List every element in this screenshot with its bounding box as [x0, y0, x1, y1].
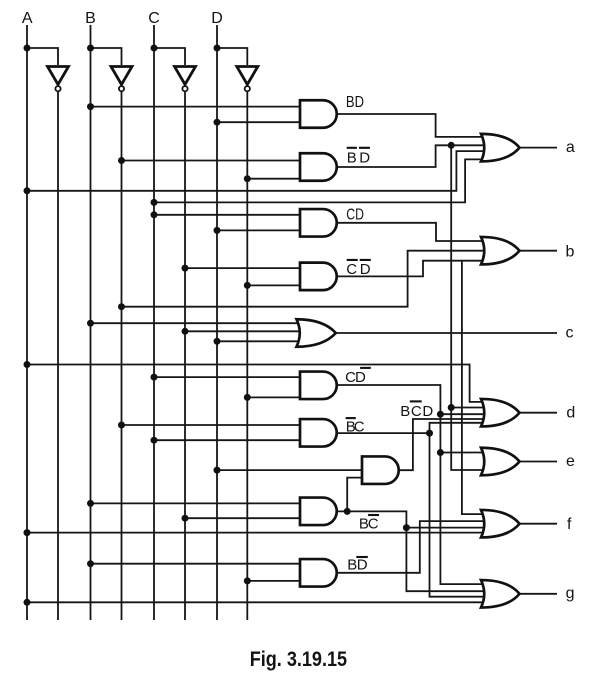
wire bus C: [153, 25, 155, 620]
wire CD-bar output riser to OR g: [336, 385, 490, 584]
wire A to OR a: [27, 151, 490, 191]
OR gate e: [481, 448, 520, 476]
svg-text:D: D: [211, 10, 223, 27]
svg-text:C: C: [368, 515, 379, 532]
wire OR d output: [520, 412, 557, 414]
junction C to B-bar.C: [151, 437, 158, 444]
junction D to BD: [214, 119, 221, 126]
wire OR b output: [520, 250, 557, 252]
svg-text:C: C: [148, 10, 160, 27]
wire D-bar to AND CD-bar input: [247, 396, 301, 398]
label C-bar.D-bar: [346, 260, 371, 278]
wire OR a output: [520, 147, 557, 149]
wire inverter branch C: [154, 48, 185, 65]
junction D-bar to C-bar.D-bar: [244, 282, 251, 289]
wire B-bar.D-bar riser to OR e: [451, 145, 490, 470]
wire C to AND CD-bar input: [154, 376, 301, 378]
wire C to AND CD input: [154, 214, 301, 216]
wire A to OR g: [27, 601, 490, 603]
svg-text:C: C: [354, 419, 365, 436]
svg-text:C: C: [346, 261, 357, 278]
svg-text:BD: BD: [346, 94, 364, 111]
svg-text:A: A: [22, 10, 33, 27]
wire A to OR d: [27, 365, 490, 402]
label CD-bar: [345, 368, 371, 386]
wire BC-bar output riser to OR g: [336, 511, 490, 591]
wire D to AND BD input: [217, 121, 301, 123]
junction D-bar to B-bar.D-bar: [244, 175, 251, 182]
AND gate C-bar.D-bar: [300, 263, 337, 291]
wire bus B: [90, 25, 92, 620]
wire CD-bar stub to OR e: [440, 452, 490, 454]
junction C to OR a: [151, 199, 158, 206]
wire bus B-bar: [121, 91, 123, 620]
wire bus A-bar: [57, 91, 59, 620]
junction B to BC-bar: [87, 500, 94, 507]
wire BD output to OR a: [336, 114, 490, 137]
junction B to OR c: [87, 320, 94, 327]
junction C-bar to C-bar.D-bar: [182, 265, 189, 272]
wire D to AND CD input: [217, 229, 301, 231]
svg-text:b: b: [566, 243, 575, 260]
inverter U1 (A-bar): [48, 67, 69, 92]
AND gate BD: [300, 100, 337, 128]
AND gate CD: [300, 209, 337, 237]
wire B-bar.C output: [336, 432, 430, 434]
AND gate BC-bar: [300, 498, 337, 526]
wire C-bar to AND C-bar.D-bar input: [185, 267, 301, 269]
inverter U3 (C-bar): [175, 67, 196, 92]
wire inverter branch D: [217, 48, 247, 65]
wire bus D: [216, 25, 218, 620]
junction C-bar to OR c: [182, 328, 189, 335]
junction B-bar.D-bar to OR d: [448, 404, 455, 411]
svg-text:B: B: [85, 10, 96, 27]
wire inverter branch B: [91, 48, 122, 65]
wire B to AND BC-bar input: [91, 502, 302, 504]
AND gate B-bar.C: [300, 419, 337, 447]
OR gate d: [481, 399, 520, 427]
label BC-bar: [359, 515, 379, 532]
junction BC-bar to BC-bar.D: [344, 508, 351, 515]
OR gate b: [481, 237, 520, 265]
junction A to OR d: [24, 361, 31, 368]
junction D-bar to CD-bar: [244, 394, 251, 401]
svg-text:f: f: [567, 516, 572, 533]
svg-text:CD: CD: [346, 206, 364, 223]
svg-text:d: d: [566, 404, 575, 421]
wire D-bar to AND BD-bar input: [247, 580, 301, 582]
label B-bar.C: [346, 418, 365, 436]
wire CD output to OR b: [336, 223, 490, 241]
wire D-bar to AND C-bar.D-bar input: [247, 284, 301, 286]
junction B to BD-bar: [87, 560, 94, 567]
wire CD-bar stub to OR d: [440, 413, 490, 415]
wire B-bar.D-bar stub to OR d: [451, 407, 490, 409]
wire D to AND BC-bar.D input: [217, 469, 364, 471]
wire B-bar to OR b: [122, 251, 491, 307]
junction D to OR c: [214, 338, 221, 345]
junction C to CD-bar: [151, 374, 158, 381]
wire BD-bar output to OR f: [336, 521, 490, 573]
wire BC-bar riser to AND BC-bar.D input: [347, 478, 364, 512]
wire B to OR c input: [91, 322, 306, 324]
wire bus D-bar: [246, 91, 248, 620]
OR gate a: [481, 134, 520, 162]
inverter U4 (D-bar): [237, 67, 258, 92]
OR gate g: [481, 580, 520, 608]
wire inverter branch A: [27, 48, 58, 65]
svg-text:D: D: [355, 369, 366, 386]
wire OR c output: [335, 332, 557, 334]
junction CD-bar to OR d: [437, 411, 444, 418]
label BC-bar.D: [400, 401, 433, 419]
OR gate c (3-input): [297, 319, 336, 347]
wire B-bar to AND B-bar.C input: [122, 424, 302, 426]
junction B-inverter tap: [87, 45, 94, 52]
wire C-bar.D-bar output to OR b: [336, 261, 490, 277]
wire A to OR f: [27, 532, 490, 534]
AND gate BD-bar: [300, 559, 337, 587]
label BD-bar: [347, 556, 368, 573]
junction D to BC-bar.D: [214, 467, 221, 474]
OR gate f: [481, 510, 520, 538]
junction B-bar to B-bar.C: [118, 422, 125, 429]
junction B-bar.C branch to OR d: [426, 430, 433, 437]
junction B-bar.D-bar branch at OR a: [448, 142, 455, 149]
svg-text:a: a: [566, 139, 575, 156]
svg-text:D: D: [357, 556, 368, 573]
svg-text:D: D: [360, 261, 371, 278]
svg-text:g: g: [566, 585, 575, 602]
junction BC-bar to OR f: [403, 524, 410, 531]
junction A to OR g: [24, 599, 31, 606]
AND gate CD-bar: [300, 372, 337, 400]
wire B to AND BD-bar input: [91, 563, 302, 565]
AND gate B-bar.D-bar: [300, 153, 337, 181]
wire C-bar to AND BC-bar input: [185, 517, 301, 519]
junction B-bar to B-bar.D-bar: [118, 157, 125, 164]
svg-text:Fig. 3.19.15: Fig. 3.19.15: [250, 648, 348, 671]
junction D-inverter tap: [214, 45, 221, 52]
svg-text:B: B: [347, 150, 357, 167]
junction D to CD: [214, 227, 221, 234]
AND gate BC-bar.D: [362, 456, 399, 484]
wire bus A: [26, 25, 28, 620]
svg-text:e: e: [566, 453, 575, 470]
junction B-bar to OR b: [118, 303, 125, 310]
wire C to OR a: [154, 159, 490, 202]
wire B-bar.C branch to OR d: [430, 423, 491, 433]
svg-text:D: D: [359, 150, 370, 167]
wire B-bar.D-bar output to OR a: [336, 145, 490, 167]
wire OR g output: [520, 593, 557, 595]
junction C to CD: [151, 211, 158, 218]
junction A to OR f: [24, 529, 31, 536]
junction A to OR a: [24, 187, 31, 194]
wire BC-bar stub to OR f: [406, 527, 490, 529]
wire C to AND B-bar.C input: [154, 439, 301, 441]
junction A-inverter tap: [24, 45, 31, 52]
wire C-bar.D-bar riser to OR f: [462, 261, 490, 514]
wire B to AND BD input: [91, 106, 302, 108]
wire bus C-bar: [184, 91, 186, 620]
wire OR e output: [520, 461, 557, 463]
inverter U2 (B-bar): [111, 67, 132, 92]
svg-text:c: c: [566, 325, 574, 342]
junction B to BD: [87, 103, 94, 110]
label B-bar.D-bar: [347, 148, 371, 167]
wire B-bar.C riser to OR g: [430, 433, 491, 597]
wire OR f output: [520, 523, 557, 525]
wire D-bar to AND B-bar.D-bar input: [247, 178, 301, 180]
wire D to OR c input: [217, 340, 305, 342]
wire BC-bar.D output to OR d: [398, 419, 490, 470]
junction C-bar to BC-bar: [182, 515, 189, 522]
wire B-bar to AND B-bar.D-bar input: [122, 160, 302, 162]
wire C-bar to OR c input: [185, 330, 305, 332]
junction D-bar to BD-bar: [244, 577, 251, 584]
svg-text:BCD: BCD: [400, 403, 433, 420]
junction C-inverter tap: [151, 45, 158, 52]
junction CD-bar to OR e: [437, 449, 444, 456]
